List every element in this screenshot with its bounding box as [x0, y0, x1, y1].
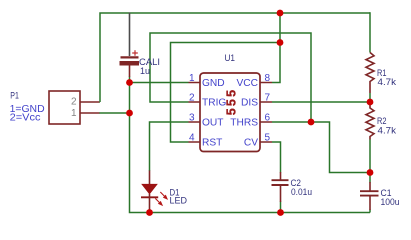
svg-text:2: 2 [189, 93, 195, 104]
node GND/P1-1 [126, 110, 133, 117]
wire VCC top rail [99, 12, 370, 102]
resistor R2 [366, 104, 374, 140]
connector P1 [49, 91, 99, 124]
wire C2 bottom to rail [280, 202, 282, 213]
wire R2 bottom [369, 140, 371, 173]
wire VCC branch vertical x280 to pin8 [272, 12, 280, 82]
svg-text:1: 1 [189, 73, 195, 84]
diode D1 LED [141, 171, 167, 211]
svg-text:4.7k: 4.7k [378, 126, 397, 137]
svg-text:555: 555 [225, 88, 239, 115]
svg-text:6: 6 [265, 113, 271, 124]
wire LED cathode to rail [149, 210, 151, 213]
wire TRIG-THRS net [150, 33, 311, 122]
svg-text:0.01u: 0.01u [291, 187, 312, 198]
svg-text:P1: P1 [10, 91, 19, 102]
capacitor CALI (polarized) [120, 13, 140, 78]
svg-text:1u: 1u [140, 66, 150, 77]
svg-text:DIS: DIS [241, 98, 258, 109]
capacitor C2 [272, 172, 289, 202]
node junction dots [126, 10, 373, 216]
svg-text:CV: CV [244, 138, 258, 149]
node C2/rail [277, 209, 284, 216]
wire VCC right drop to R1 [369, 12, 371, 52]
resistor R1 [366, 53, 374, 94]
svg-text:5: 5 [265, 133, 271, 144]
capacitor C1 [360, 182, 379, 210]
svg-text:OUT: OUT [202, 118, 224, 129]
wire RST net y42.5 [171, 43, 281, 143]
wire THRS pin6 to C1/R2 [272, 122, 370, 173]
wire P1 pin1 to GND node [99, 112, 130, 114]
svg-text:LED: LED [170, 196, 188, 207]
wire OUT net to LED [150, 122, 189, 171]
svg-text:TRIG: TRIG [202, 98, 226, 109]
svg-text:GND: GND [202, 78, 225, 89]
svg-text:100u: 100u [381, 197, 400, 208]
svg-text:2: 2 [71, 97, 77, 108]
svg-text:4.7k: 4.7k [378, 77, 397, 88]
svg-text:RST: RST [202, 138, 222, 149]
svg-text:2=Vcc: 2=Vcc [10, 113, 41, 124]
node R2/C1 [367, 169, 374, 176]
wire CV pin5 to C2 [272, 142, 281, 173]
node VCC/RST [277, 39, 284, 46]
svg-text:VCC: VCC [236, 78, 258, 89]
node DIS R1/R2 [367, 99, 374, 106]
node GND/pin1 [126, 79, 133, 86]
svg-text:3: 3 [189, 113, 195, 124]
svg-text:8: 8 [265, 73, 271, 84]
svg-text:4: 4 [189, 133, 195, 144]
node THRS [308, 119, 315, 126]
svg-text:THRS: THRS [230, 118, 258, 129]
wire GND pin1 [130, 82, 189, 84]
wire C1 bottom corner [369, 210, 371, 213]
wire DIS pin7 to R1/R2 [272, 101, 370, 103]
wire GND net vertical + rail [130, 77, 371, 213]
wire C1 top lead [369, 173, 371, 183]
node VCC/top [277, 10, 284, 17]
node LED/rail [146, 209, 153, 216]
svg-text:U1: U1 [225, 53, 236, 64]
svg-text:7: 7 [265, 93, 271, 104]
op-amp U1 555 IC body [189, 73, 273, 152]
svg-text:1: 1 [71, 108, 77, 119]
wire R1 bottom to node [369, 93, 371, 102]
